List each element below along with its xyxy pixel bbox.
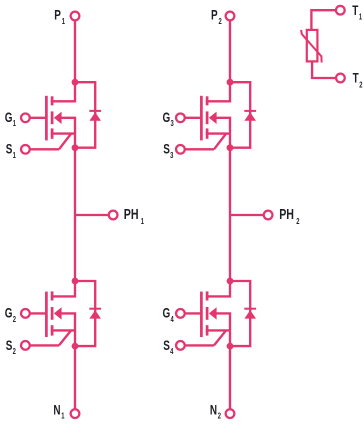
transistor Q1 source terminal wire <box>25 148 59 150</box>
label PH1 <box>124 205 144 226</box>
source terminal S1 <box>21 145 30 154</box>
body diode D1 cathode bar <box>89 110 101 112</box>
transistor Q4 gate bar <box>200 292 203 337</box>
svg-text:P: P <box>54 7 61 23</box>
svg-text:2: 2 <box>218 412 221 421</box>
transistor Q1 drain lead <box>51 82 75 101</box>
transistor Q2 body wire <box>61 313 75 346</box>
wire upper source to lower drain (phase node) <box>229 148 231 281</box>
body diode D2 cathode bar <box>89 308 101 310</box>
body diode D2 branch wire <box>75 281 95 346</box>
svg-text:1: 1 <box>359 13 362 22</box>
label N2 <box>210 402 221 421</box>
wire phase branch to PH1 <box>75 214 109 216</box>
wire lower source to N1 <box>74 346 76 414</box>
body diode D3 branch wire <box>230 82 250 148</box>
thermistor RT1 diagonal strike <box>301 30 322 63</box>
transistor Q4 source diagonal <box>214 330 226 345</box>
svg-text:T: T <box>353 70 360 86</box>
junction dot source of Q4 <box>227 343 234 350</box>
label S2 <box>6 337 16 356</box>
svg-text:1: 1 <box>61 412 64 421</box>
terminal T1 <box>336 6 345 15</box>
body diode D4 cathode bar <box>244 308 256 310</box>
transistor Q4 drain lead <box>206 281 230 296</box>
body diode D4 branch wire <box>230 281 250 346</box>
svg-text:4: 4 <box>170 347 173 356</box>
transistor Q3 channel segments <box>206 96 209 105</box>
transistor Q2 body arrow <box>54 307 62 319</box>
terminal P1 <box>71 12 80 21</box>
label P1 <box>54 7 65 26</box>
svg-text:N: N <box>53 402 60 418</box>
svg-text:S: S <box>163 337 170 353</box>
body diode D3 triangle <box>244 112 256 121</box>
svg-text:1: 1 <box>13 151 16 160</box>
transistor Q2 source lead <box>51 329 75 331</box>
transistor Q1 source lead <box>51 132 75 134</box>
svg-text:G: G <box>5 109 13 125</box>
svg-text:3: 3 <box>171 119 174 128</box>
transistor Q1 body arrow <box>54 112 62 124</box>
junction dot source of Q3 <box>227 144 234 151</box>
label G4 <box>163 305 174 324</box>
source terminal S3 <box>176 145 185 154</box>
svg-text:S: S <box>6 141 13 157</box>
transistor Q3 source lead <box>206 132 230 134</box>
gate terminal G4 <box>176 309 185 318</box>
thermistor RT1 body rectangle <box>307 30 318 62</box>
gate terminal G1 <box>21 113 30 122</box>
source terminal S4 <box>176 341 185 350</box>
terminal N2 <box>226 409 235 418</box>
transistor Q1 body wire <box>61 118 75 148</box>
label G2 <box>5 305 16 324</box>
label P2 <box>211 7 222 26</box>
svg-text:2: 2 <box>359 80 362 89</box>
transistor Q4 source lead <box>206 329 230 331</box>
transistor Q3 source diagonal <box>214 134 226 150</box>
wire P2 rail to upper transistor <box>229 16 231 82</box>
terminal N1 <box>71 409 80 418</box>
svg-text:T: T <box>352 2 359 18</box>
label G1 <box>5 109 16 128</box>
body diode D1 branch wire <box>75 82 95 148</box>
svg-text:2: 2 <box>296 217 299 226</box>
transistor Q3 gate wire <box>180 117 201 119</box>
transistor Q2 source terminal wire <box>25 344 59 346</box>
junction dot source of Q2 <box>72 343 79 350</box>
transistor Q1 source diagonal <box>59 134 71 150</box>
gate terminal G2 <box>21 309 30 318</box>
body diode D1 triangle <box>89 112 101 121</box>
transistor Q4 body arrow <box>209 307 217 319</box>
label T2 <box>353 70 363 90</box>
svg-text:2: 2 <box>13 347 16 356</box>
svg-text:G: G <box>163 305 171 321</box>
junction dot source of Q1 <box>72 144 79 151</box>
transistor Q4 body wire <box>216 313 230 346</box>
svg-text:2: 2 <box>219 17 222 26</box>
svg-text:P: P <box>211 7 218 23</box>
transistor Q3 body arrow <box>209 112 217 124</box>
label PH2 <box>279 205 299 226</box>
transistor Q2 gate bar <box>45 292 48 337</box>
transistor Q4 source terminal wire <box>180 344 214 346</box>
svg-text:3: 3 <box>170 151 173 160</box>
transistor Q1 channel segments <box>51 96 54 105</box>
transistor Q4 channel segments <box>206 291 209 300</box>
transistor Q1 gate bar <box>45 96 48 141</box>
svg-text:2: 2 <box>13 315 16 324</box>
thermistor RT1 bottom lead wire <box>312 61 335 78</box>
transistor Q3 source terminal wire <box>180 148 214 150</box>
body diode D2 triangle <box>89 310 101 319</box>
label S1 <box>6 141 16 160</box>
svg-text:PH: PH <box>279 205 294 222</box>
transistor Q4 gate wire <box>180 312 201 314</box>
terminal T2 <box>336 74 345 83</box>
svg-text:N: N <box>210 402 217 418</box>
junction dot drain of Q2 <box>72 278 79 285</box>
terminal PH2 <box>264 211 273 220</box>
transistor Q3 body wire <box>216 118 230 148</box>
junction dot drain of Q4 <box>227 278 234 285</box>
svg-text:1: 1 <box>62 17 65 26</box>
label N1 <box>53 402 64 421</box>
wire upper source to lower drain (phase node) <box>74 148 76 281</box>
junction dot drain of Q3 <box>227 79 234 86</box>
svg-text:1: 1 <box>13 119 16 128</box>
svg-text:4: 4 <box>171 315 174 324</box>
svg-text:S: S <box>163 141 170 157</box>
label G3 <box>163 109 174 128</box>
label S3 <box>163 141 173 160</box>
transistor Q2 gate wire <box>25 312 46 314</box>
wire P1 rail to upper transistor <box>74 16 76 82</box>
transistor Q2 drain lead <box>51 281 75 296</box>
transistor Q3 gate bar <box>200 96 203 141</box>
gate terminal G3 <box>176 113 185 122</box>
wire phase branch to PH2 <box>230 214 264 216</box>
source terminal S2 <box>21 341 30 350</box>
body diode D4 triangle <box>244 310 256 319</box>
svg-text:1: 1 <box>141 217 144 226</box>
terminal PH1 <box>109 211 118 220</box>
transistor Q2 channel segments <box>51 291 54 300</box>
transistor Q3 drain lead <box>206 82 230 101</box>
transistor Q1 gate wire <box>25 117 46 119</box>
svg-text:G: G <box>5 305 13 321</box>
thermistor RT1 top lead wire <box>311 10 335 30</box>
wire lower source to N2 <box>229 346 231 414</box>
transistor Q2 source diagonal <box>59 330 71 345</box>
svg-text:PH: PH <box>124 205 139 222</box>
svg-text:G: G <box>163 109 171 125</box>
label S4 <box>163 337 173 356</box>
terminal P2 <box>226 12 235 21</box>
junction dot drain of Q1 <box>72 79 79 86</box>
label T1 <box>352 2 362 22</box>
body diode D3 cathode bar <box>244 110 256 112</box>
svg-text:S: S <box>6 337 13 353</box>
